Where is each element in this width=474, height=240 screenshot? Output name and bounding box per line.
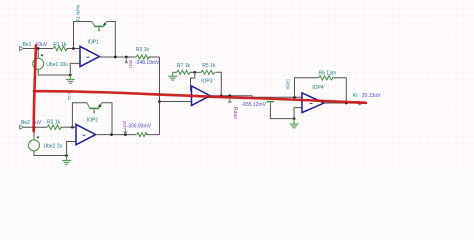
red annotation vertical [34,45,36,131]
wire to inverting input [70,63,80,75]
op-amp IOP4 [302,93,324,113]
resistor R4 [137,133,148,137]
capacitor C1 [267,97,275,105]
wire R6 to output [332,78,346,103]
op-amp IOP2 [76,124,96,144]
svg-text:10uV: 10uV [36,42,48,48]
wire output 3 [210,96,302,98]
svg-text:-306.93mV: -306.93mV [127,123,152,129]
test pin 2 [124,129,127,135]
wire output 2 [96,134,136,136]
node feedback tap 2 [71,126,74,129]
node gnd junction 4 [293,117,296,120]
node test point 3 [228,94,231,97]
node test point 2 [124,133,127,136]
wire node to inverting input [191,72,195,91]
svg-text:IOP3: IOP3 [201,79,213,85]
wire R2 to opamp [61,126,77,128]
resistor R6 [319,76,334,80]
wire feedback right [107,22,116,58]
resistor R1 [53,46,68,50]
wire output 4 [324,102,359,104]
ground [66,75,75,83]
svg-text:Ki: Ki [353,93,357,99]
transistor T2 [87,103,102,114]
node output join [345,102,348,105]
node source tap [37,47,40,50]
test pin 3 Raus [228,96,231,104]
red annotation horizontal [34,91,366,103]
wire feedback 4 [295,78,319,98]
svg-text:R5 1k: R5 1k [202,63,216,69]
node feedback tap 4 [293,96,296,99]
node feedback join 2 [110,133,113,136]
svg-text:IOP4: IOP4 [312,85,324,91]
wire source stem [37,49,39,59]
node source tap 2 [33,126,36,129]
svg-text:IOP1: IOP1 [88,39,100,45]
node feedback tap [72,47,75,50]
wire gnd to R7 [173,71,177,73]
node ground junction [69,74,72,77]
wire cap down [270,105,294,118]
wire source 2 stem [33,127,35,140]
resistor R5 [201,70,215,74]
wire mid vertical [159,57,161,135]
source Ube1 [33,58,44,69]
svg-text:R7 1k: R7 1k [177,63,191,69]
wire R1 to opamp [67,48,81,50]
svg-text:R3 1k: R3 1k [136,47,150,53]
svg-text:-655.12mV: -655.12mV [242,102,267,108]
wire source bottom [38,69,70,75]
wire Be1 to R1 [24,48,53,50]
source Ube2 [29,140,40,151]
svg-text:R6 13m: R6 13m [319,71,337,77]
node R7-R5 [193,71,196,74]
wire feedback left [74,22,92,49]
node test point 1 [125,56,128,59]
ground 2 [62,156,71,165]
node ground junction 2 [65,154,68,157]
node mid [158,100,161,103]
input terminal Be2 [20,125,24,129]
resistor R3 [136,55,150,59]
op-amp IOP1 [80,46,99,66]
svg-text:Ube2 2u: Ube2 2u [44,144,63,150]
ground 3 [168,72,177,80]
svg-text:T1 NPN: T1 NPN [76,5,81,21]
transistor T1 [92,22,107,33]
wire mid to IOP3 [160,101,192,103]
svg-text:Be2: Be2 [21,120,30,126]
output terminal Ki [359,101,363,105]
wire R7 to node [190,71,201,73]
svg-text:R2 1k: R2 1k [47,120,61,126]
svg-text:Be1: Be1 [23,42,32,48]
wire R4 to mid [146,134,159,136]
test pin 1 [125,57,128,64]
svg-text:Raus: Raus [232,107,238,119]
resistor R7 [177,70,191,74]
node R5 join [220,94,223,97]
op-amp IOP3 [192,86,211,106]
wire Be2 to R2 [24,126,47,128]
resistor R2 [47,125,62,129]
wire R3 to mid [148,56,159,58]
input terminal Be1 [20,47,24,51]
svg-text:R1 1k: R1 1k [53,42,67,48]
svg-text:Ua1: Ua1 [128,59,133,68]
wire output 1 [99,56,135,58]
wire R5 to output [215,72,221,95]
svg-text:IOP2: IOP2 [87,117,99,123]
wire to noninverting input 4 [294,108,302,119]
svg-text:Ube1 10u: Ube1 10u [46,62,68,68]
ground 4 [290,119,299,128]
svg-text:-348.19mV: -348.19mV [135,60,160,66]
svg-text:HFE1: HFE1 [286,78,291,89]
wire to inverting input 2 [67,142,76,156]
svg-text:20.13uV: 20.13uV [362,93,381,99]
node feedback join [114,56,117,59]
wire feedback right 2 [102,103,112,135]
wire feedback left 2 [72,103,87,127]
wire source 2 bottom [34,151,67,156]
